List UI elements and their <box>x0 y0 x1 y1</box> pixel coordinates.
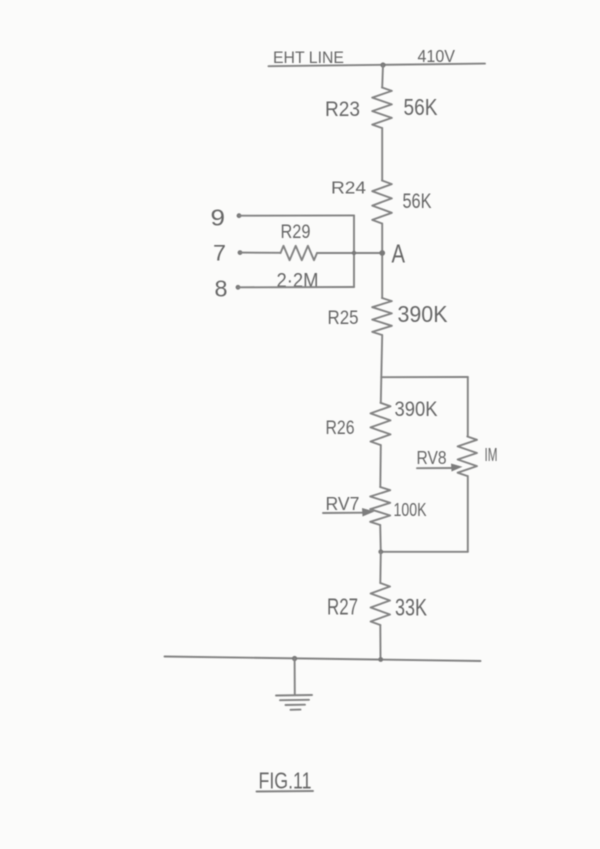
label 33K <box>395 595 427 622</box>
resistor R26 <box>371 403 391 445</box>
node junction bracket <box>352 251 356 255</box>
svg-text:R24: R24 <box>331 178 366 198</box>
wire <box>380 335 383 377</box>
svg-text:100K: 100K <box>394 500 427 520</box>
label FIG.11 <box>257 768 314 794</box>
wire ground bus <box>165 657 481 662</box>
svg-text:IM: IM <box>485 445 498 465</box>
wire <box>379 625 381 659</box>
wire <box>239 214 354 216</box>
wire branch top <box>381 376 468 378</box>
label RV8 <box>417 448 447 468</box>
resistor R24 <box>372 181 392 224</box>
label R24 <box>331 178 366 198</box>
svg-text:R23: R23 <box>325 98 360 121</box>
label 390K <box>398 301 448 327</box>
wire <box>380 377 383 403</box>
resistor R23 <box>372 88 392 129</box>
resistor R29 <box>281 246 318 260</box>
svg-text:2·2M: 2·2M <box>277 270 319 292</box>
svg-text:8: 8 <box>215 276 228 302</box>
node junction branch bottom <box>378 549 383 554</box>
svg-text:R26: R26 <box>326 418 355 439</box>
wire branch bottom <box>381 551 468 553</box>
potentiometer RV8 <box>458 437 477 477</box>
node junction top <box>380 62 385 67</box>
terminal 9 <box>211 205 242 231</box>
svg-text:RV7: RV7 <box>326 494 360 514</box>
wire <box>381 224 383 299</box>
potentiometer RV7 <box>370 487 390 525</box>
label R29 <box>281 222 311 243</box>
svg-text:FIG.11: FIG.11 <box>259 768 312 794</box>
svg-text:EHT LINE: EHT LINE <box>273 48 344 67</box>
wire <box>379 552 382 583</box>
wire <box>238 286 354 288</box>
label R26 <box>326 418 355 439</box>
wire bracket vertical <box>353 215 355 287</box>
label 56K <box>403 189 432 213</box>
label EHT LINE <box>273 48 344 67</box>
svg-text:R27: R27 <box>327 594 358 620</box>
wire <box>379 445 382 487</box>
label R25 <box>328 308 359 329</box>
svg-text:A: A <box>392 241 406 269</box>
arrow RV8 wiper <box>417 464 463 472</box>
svg-text:7: 7 <box>213 241 226 266</box>
svg-text:RV8: RV8 <box>417 448 447 468</box>
node junction ground tap <box>292 656 297 661</box>
svg-text:410V: 410V <box>418 46 456 66</box>
label 2.2M <box>277 270 319 292</box>
svg-text:R29: R29 <box>281 222 311 243</box>
label 100K <box>394 500 427 520</box>
label 56K <box>404 94 438 120</box>
label RV7 <box>326 494 360 514</box>
wire right branch lower <box>467 476 469 552</box>
svg-text:R25: R25 <box>328 308 359 329</box>
label 1M <box>485 445 498 465</box>
wire <box>381 128 383 181</box>
terminal 7 <box>213 241 242 266</box>
wire right branch upper <box>467 377 469 437</box>
wire <box>381 65 384 88</box>
label R23 <box>325 98 360 121</box>
label 410V <box>418 46 456 66</box>
resistor R25 <box>372 298 392 335</box>
arrow RV7 wiper <box>323 508 375 517</box>
svg-text:9: 9 <box>211 205 226 231</box>
node A <box>379 241 405 269</box>
resistor R27 <box>371 583 390 625</box>
wire <box>240 252 281 254</box>
svg-text:56K: 56K <box>404 94 438 120</box>
wire ground stem <box>294 659 296 696</box>
label 390K <box>395 397 439 421</box>
terminal 8 <box>215 276 241 302</box>
svg-text:390K: 390K <box>398 301 448 327</box>
svg-text:33K: 33K <box>395 595 427 622</box>
svg-text:390K: 390K <box>395 397 439 421</box>
wire <box>379 525 382 552</box>
ground <box>276 695 312 710</box>
wire <box>317 252 382 254</box>
wire EHT line (top rail) <box>269 64 486 67</box>
node junction rail-bus <box>378 657 383 662</box>
label R27 <box>327 594 358 620</box>
svg-text:56K: 56K <box>403 189 432 213</box>
